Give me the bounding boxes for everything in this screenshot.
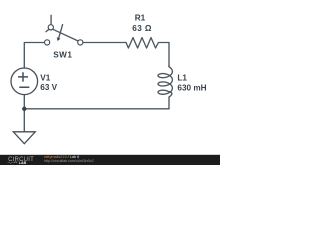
svg-text:SW1: SW1	[53, 50, 72, 59]
svg-text:http://circuitlab.com/c6rd3kr5: http://circuitlab.com/c6rd3kr5x2	[44, 159, 94, 163]
svg-text:L1: L1	[177, 73, 187, 82]
svg-text:LAB: LAB	[19, 161, 27, 165]
svg-text:63 V: 63 V	[40, 83, 57, 92]
svg-text:630 mH: 630 mH	[177, 83, 206, 92]
svg-text:R1: R1	[135, 14, 146, 23]
svg-text:V1: V1	[40, 74, 50, 83]
svg-text:63 Ω: 63 Ω	[132, 24, 152, 33]
